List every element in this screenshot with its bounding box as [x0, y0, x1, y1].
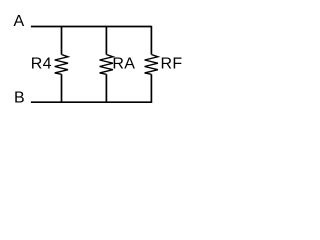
svg-text:RF: RF — [161, 55, 183, 72]
resistor RF — [145, 55, 158, 75]
wire R4 top lead — [61, 27, 63, 55]
resistor R4 — [55, 55, 68, 75]
wire top bus A — [31, 26, 151, 28]
wire RF top lead — [150, 26, 152, 55]
wire bottom bus B — [31, 101, 151, 103]
svg-text:RA: RA — [112, 55, 135, 72]
wire RF bottom lead — [150, 74, 152, 103]
wire RA top lead — [105, 27, 107, 55]
resistor RA — [100, 55, 113, 75]
svg-text:B: B — [14, 89, 25, 106]
svg-text:R4: R4 — [31, 55, 52, 72]
svg-text:A: A — [14, 13, 25, 30]
wire R4 bottom lead — [61, 74, 63, 102]
wire RA bottom lead — [105, 74, 107, 102]
